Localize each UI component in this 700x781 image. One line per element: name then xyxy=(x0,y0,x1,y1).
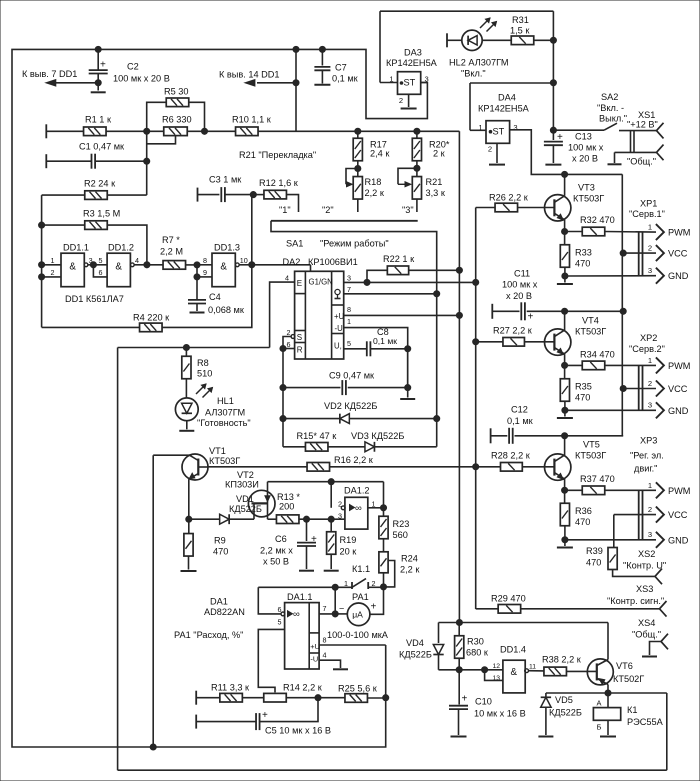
svg-text:R1 1 к: R1 1 к xyxy=(85,115,112,125)
svg-text:SA2: SA2 xyxy=(601,92,618,102)
svg-text:С13: С13 xyxy=(575,132,592,142)
svg-text:VT6: VT6 xyxy=(616,661,633,671)
svg-text:1: 1 xyxy=(344,579,348,588)
svg-text:6: 6 xyxy=(99,268,103,277)
svg-text:R: R xyxy=(297,346,303,355)
svg-text:R21 "Перекладка": R21 "Перекладка" xyxy=(239,150,316,160)
svg-text:КТ503Г: КТ503Г xyxy=(575,327,606,337)
svg-text:3: 3 xyxy=(347,273,351,282)
svg-text:"Контр. U": "Контр. U" xyxy=(623,561,666,571)
svg-text:470: 470 xyxy=(586,558,601,568)
svg-text:VT4: VT4 xyxy=(582,316,599,326)
svg-text:C2: C2 xyxy=(127,62,139,72)
svg-text:+U: +U xyxy=(310,642,320,651)
svg-text:2: 2 xyxy=(648,379,652,388)
svg-text:"Серв.2": "Серв.2" xyxy=(629,344,665,354)
svg-text:2,2 к: 2,2 к xyxy=(365,188,385,198)
svg-text:1: 1 xyxy=(478,123,482,132)
svg-text:100 мк x: 100 мк x xyxy=(502,280,538,290)
svg-text:ST: ST xyxy=(404,78,416,88)
svg-text:КТ503Г: КТ503Г xyxy=(575,451,606,461)
svg-text:Выкл.": Выкл." xyxy=(599,114,627,124)
svg-text:2,2 мк x: 2,2 мк x xyxy=(260,546,293,556)
svg-text:DD1 К561ЛА7: DD1 К561ЛА7 xyxy=(65,294,124,304)
svg-text:GND: GND xyxy=(668,406,689,416)
svg-text:КТ502Г: КТ502Г xyxy=(613,674,644,684)
svg-text:DA1.1: DA1.1 xyxy=(287,592,313,602)
svg-text:2: 2 xyxy=(648,244,652,253)
svg-text:2: 2 xyxy=(372,579,376,588)
svg-text:VCC: VCC xyxy=(668,249,688,259)
svg-text:КР142ЕН5А: КР142ЕН5А xyxy=(478,104,530,114)
svg-text:К выв. 14 DD1: К выв. 14 DD1 xyxy=(219,70,280,80)
svg-text:"Рег. эл.: "Рег. эл. xyxy=(630,451,664,461)
svg-text:PWM: PWM xyxy=(668,228,690,238)
svg-text:4: 4 xyxy=(135,256,139,265)
svg-text:0,1 мк: 0,1 мк xyxy=(332,74,359,84)
svg-text:AD822AN: AD822AN xyxy=(204,607,245,617)
svg-text:3: 3 xyxy=(648,266,652,275)
svg-text:+: + xyxy=(100,60,106,71)
svg-text:DA1.2: DA1.2 xyxy=(344,486,370,496)
svg-text:VD5: VD5 xyxy=(555,695,573,705)
svg-text:PWM: PWM xyxy=(668,486,690,496)
svg-text:VT3: VT3 xyxy=(578,183,595,193)
svg-text:VD2 КД522Б: VD2 КД522Б xyxy=(324,401,377,411)
svg-text:КТ503Г: КТ503Г xyxy=(573,194,604,204)
svg-text:XS1: XS1 xyxy=(638,110,655,120)
svg-text:К выв. 7 DD1: К выв. 7 DD1 xyxy=(22,69,77,79)
svg-text:560: 560 xyxy=(393,530,408,540)
svg-text:2: 2 xyxy=(51,268,55,277)
svg-text:R6 330: R6 330 xyxy=(162,115,192,125)
svg-text:R33: R33 xyxy=(575,248,592,258)
svg-text:А: А xyxy=(597,698,602,707)
svg-text:С11: С11 xyxy=(514,268,530,278)
svg-text:РА1: РА1 xyxy=(352,592,369,602)
svg-text:3,3 к: 3,3 к xyxy=(426,188,446,198)
svg-text:+: + xyxy=(462,694,468,705)
svg-text:DD1.2: DD1.2 xyxy=(108,242,134,252)
svg-text:R35: R35 xyxy=(575,382,592,392)
svg-text:"Общ.": "Общ." xyxy=(632,629,661,639)
svg-text:R36: R36 xyxy=(575,506,592,516)
svg-text:R21: R21 xyxy=(426,177,443,187)
svg-text:VT5: VT5 xyxy=(583,440,600,450)
svg-text:&: & xyxy=(69,262,76,273)
svg-text:DA4: DA4 xyxy=(498,93,516,103)
svg-text:100-0-100 мкА: 100-0-100 мкА xyxy=(327,630,389,640)
svg-text:R11 3,3 к: R11 3,3 к xyxy=(211,683,250,693)
svg-text:VT2: VT2 xyxy=(237,470,254,480)
svg-text:C1 0,47 мк: C1 0,47 мк xyxy=(79,142,125,152)
svg-text:"Режим работы": "Режим работы" xyxy=(320,239,389,249)
svg-text:VCC: VCC xyxy=(668,384,688,394)
svg-text:12: 12 xyxy=(493,663,501,670)
svg-text:1: 1 xyxy=(648,223,652,232)
svg-text:VD3 КД522Б: VD3 КД522Б xyxy=(351,431,404,441)
svg-text:"+12 В": "+12 В" xyxy=(627,120,658,130)
svg-text:SA1: SA1 xyxy=(286,239,303,249)
svg-text:КР142ЕН5А: КР142ЕН5А xyxy=(386,58,438,68)
svg-text:&: & xyxy=(511,667,518,678)
svg-text:R29 470: R29 470 xyxy=(491,594,526,604)
svg-text:R26 2,2 к: R26 2,2 к xyxy=(489,193,529,203)
svg-text:2: 2 xyxy=(648,505,652,514)
svg-text:R22 1 к: R22 1 к xyxy=(383,254,415,264)
svg-text:0,1 мк: 0,1 мк xyxy=(373,336,397,346)
svg-text:100 мк x 20 В: 100 мк x 20 В xyxy=(113,74,170,84)
svg-text:∞: ∞ xyxy=(355,503,362,514)
svg-text:G1/GN: G1/GN xyxy=(309,278,333,287)
svg-text:HL2 АЛ307ГМ: HL2 АЛ307ГМ xyxy=(449,58,509,68)
svg-text:&: & xyxy=(220,262,227,273)
svg-text:R8: R8 xyxy=(197,358,209,368)
svg-text:-U: -U xyxy=(310,655,318,664)
svg-text:XP3: XP3 xyxy=(640,436,657,446)
svg-text:R15* 47 к: R15* 47 к xyxy=(297,431,338,441)
svg-text:КД522Б: КД522Б xyxy=(549,708,582,718)
svg-text:DD1.4: DD1.4 xyxy=(500,645,526,655)
svg-text:XS2: XS2 xyxy=(638,549,655,559)
svg-text:DA3: DA3 xyxy=(404,48,422,58)
svg-text:"Готовность": "Готовность" xyxy=(197,418,251,428)
svg-text:R12 1,6 к: R12 1,6 к xyxy=(259,178,299,188)
svg-text:x 20 В: x 20 В xyxy=(506,291,532,301)
svg-text:КД522Б: КД522Б xyxy=(399,650,432,660)
svg-text:&: & xyxy=(115,262,122,273)
svg-text:"Вкл.": "Вкл." xyxy=(461,69,486,79)
svg-text:VT1: VT1 xyxy=(209,446,226,456)
svg-text:2: 2 xyxy=(488,145,492,154)
svg-text:7: 7 xyxy=(323,604,327,613)
svg-text:К1.1: К1.1 xyxy=(352,564,370,574)
svg-text:10: 10 xyxy=(240,256,248,265)
svg-text:8: 8 xyxy=(323,635,327,644)
svg-text:E: E xyxy=(297,279,302,288)
svg-text:C3 1 мк: C3 1 мк xyxy=(209,175,242,185)
svg-text:GND: GND xyxy=(668,271,689,281)
svg-text:2,2 к: 2,2 к xyxy=(400,565,420,575)
svg-text:двиг.": двиг." xyxy=(634,464,657,474)
svg-text:680 к: 680 к xyxy=(466,648,489,658)
svg-text:C7: C7 xyxy=(335,63,347,73)
svg-text:"1": "1" xyxy=(279,205,291,215)
svg-text:КР1006ВИ1: КР1006ВИ1 xyxy=(308,257,358,267)
svg-text:R10 1,1 к: R10 1,1 к xyxy=(232,115,272,125)
svg-text:+: + xyxy=(262,710,268,721)
svg-text:R3 1,5 М: R3 1,5 М xyxy=(83,209,120,219)
svg-text:1: 1 xyxy=(347,317,351,326)
svg-text:R28 2,2 к: R28 2,2 к xyxy=(491,451,531,461)
svg-text:R32 470: R32 470 xyxy=(580,215,615,225)
svg-text:R16 2,2 к: R16 2,2 к xyxy=(334,455,374,465)
svg-text:6: 6 xyxy=(287,340,291,349)
svg-text:2: 2 xyxy=(287,328,291,337)
svg-text:R9: R9 xyxy=(214,536,226,546)
svg-text:DA2: DA2 xyxy=(283,257,301,267)
svg-text:HL1: HL1 xyxy=(217,396,234,406)
svg-text:R38 2,2 к: R38 2,2 к xyxy=(542,655,582,665)
svg-text:+: + xyxy=(557,132,563,143)
svg-text:x 20 В: x 20 В xyxy=(572,154,598,164)
svg-text:4: 4 xyxy=(323,651,327,660)
svg-text:x 50 В: x 50 В xyxy=(263,557,289,567)
svg-text:"Вкл. -: "Вкл. - xyxy=(597,103,624,113)
svg-text:R27 2,2 к: R27 2,2 к xyxy=(493,326,533,336)
svg-text:R24: R24 xyxy=(401,554,418,564)
svg-text:1,5 к: 1,5 к xyxy=(510,26,530,36)
svg-text:R25 5,6 к: R25 5,6 к xyxy=(338,684,378,694)
svg-text:470: 470 xyxy=(213,547,228,557)
svg-text:R4 220 к: R4 220 к xyxy=(133,313,170,323)
svg-text:К1: К1 xyxy=(627,705,637,715)
svg-text:2 к: 2 к xyxy=(433,149,446,159)
svg-text:"Серв.1": "Серв.1" xyxy=(629,209,665,219)
svg-text:5: 5 xyxy=(347,339,351,348)
svg-text:20 к: 20 к xyxy=(340,547,358,557)
svg-text:R2 24 к: R2 24 к xyxy=(84,179,116,189)
svg-text:U,: U, xyxy=(334,342,342,351)
svg-text:КП303И: КП303И xyxy=(225,480,259,490)
svg-text:C12: C12 xyxy=(511,405,528,415)
svg-text:1: 1 xyxy=(648,356,652,365)
svg-text:XP2: XP2 xyxy=(640,333,657,343)
svg-text:R34 470: R34 470 xyxy=(580,349,615,359)
svg-text:2: 2 xyxy=(399,96,403,105)
svg-text:DA1: DA1 xyxy=(210,597,228,607)
svg-text:∞: ∞ xyxy=(293,609,300,620)
svg-text:VCC: VCC xyxy=(668,510,688,520)
svg-text:DD1.1: DD1.1 xyxy=(63,242,89,252)
svg-text:510: 510 xyxy=(197,369,212,379)
svg-text:R5 30: R5 30 xyxy=(164,87,189,97)
svg-text:РЭС55А: РЭС55А xyxy=(627,717,664,727)
svg-text:0,068 мк: 0,068 мк xyxy=(208,305,245,315)
svg-text:R19: R19 xyxy=(340,535,357,545)
svg-text:3: 3 xyxy=(338,512,342,521)
svg-text:470: 470 xyxy=(575,393,590,403)
svg-text:"3": "3" xyxy=(402,205,414,215)
svg-text:С6: С6 xyxy=(275,534,287,544)
svg-text:5: 5 xyxy=(99,256,103,265)
svg-text:R31: R31 xyxy=(512,15,529,25)
svg-text:R39: R39 xyxy=(586,546,603,556)
svg-text:3: 3 xyxy=(648,401,652,410)
svg-text:11: 11 xyxy=(529,663,536,670)
svg-text:R37 470: R37 470 xyxy=(580,474,615,484)
svg-text:1: 1 xyxy=(648,481,652,490)
svg-text:9: 9 xyxy=(203,268,207,277)
svg-text:3: 3 xyxy=(648,530,652,539)
svg-text:S: S xyxy=(297,333,302,342)
svg-text:C9 0,47 мк: C9 0,47 мк xyxy=(329,371,375,381)
svg-text:R13 *: R13 * xyxy=(277,492,300,502)
svg-text:C4: C4 xyxy=(209,292,221,302)
svg-text:−: − xyxy=(339,604,344,614)
svg-text:XP1: XP1 xyxy=(640,199,657,209)
svg-text:1: 1 xyxy=(389,75,393,84)
svg-text:+: + xyxy=(528,312,534,323)
svg-text:"Контр. сигн.": "Контр. сигн." xyxy=(607,596,664,606)
svg-text:С10: С10 xyxy=(475,697,492,707)
svg-text:200: 200 xyxy=(279,502,294,512)
svg-text:"2": "2" xyxy=(322,205,334,215)
svg-text:μА: μА xyxy=(352,610,363,620)
svg-text:R18: R18 xyxy=(365,177,382,187)
svg-text:+: + xyxy=(371,602,377,613)
svg-text:8: 8 xyxy=(347,305,351,314)
svg-text:470: 470 xyxy=(575,259,590,269)
svg-text:100 мк x: 100 мк x xyxy=(568,143,604,153)
svg-text:+U: +U xyxy=(334,312,345,321)
svg-text:10 мк x 16 В: 10 мк x 16 В xyxy=(474,709,526,719)
svg-text:470: 470 xyxy=(575,517,590,527)
svg-text:КТ503Г: КТ503Г xyxy=(209,456,240,466)
svg-text:2,4 к: 2,4 к xyxy=(370,149,390,159)
svg-text:3: 3 xyxy=(513,123,517,132)
svg-text:R30: R30 xyxy=(467,637,484,647)
svg-text:4: 4 xyxy=(285,274,289,283)
svg-text:DD1.3: DD1.3 xyxy=(214,242,240,252)
svg-text:КД522Б: КД522Б xyxy=(229,504,262,514)
svg-text:R7 *: R7 * xyxy=(162,235,180,245)
svg-text:"Общ.": "Общ." xyxy=(627,157,656,167)
svg-text:8: 8 xyxy=(203,256,207,265)
svg-text:0,1 мк: 0,1 мк xyxy=(507,416,534,426)
svg-text:2,2 М: 2,2 М xyxy=(160,247,183,257)
svg-text:XS4: XS4 xyxy=(638,618,655,628)
svg-text:VD4: VD4 xyxy=(406,638,424,648)
svg-text:XS3: XS3 xyxy=(636,584,653,594)
svg-text:Б: Б xyxy=(597,723,602,732)
svg-text:+: + xyxy=(311,534,317,545)
svg-text:GND: GND xyxy=(668,535,689,545)
svg-text:5: 5 xyxy=(278,618,282,627)
svg-text:C5 10 мк x 16 В: C5 10 мк x 16 В xyxy=(265,726,331,736)
svg-text:ST: ST xyxy=(493,126,505,136)
svg-text:РА1 "Расход, %": РА1 "Расход, %" xyxy=(174,630,243,640)
svg-text:7: 7 xyxy=(347,285,351,294)
svg-text:R23: R23 xyxy=(393,519,410,529)
svg-text:-U: -U xyxy=(335,324,344,333)
svg-text:PWM: PWM xyxy=(668,361,690,371)
svg-text:R14 2,2 к: R14 2,2 к xyxy=(283,683,323,693)
svg-text:1: 1 xyxy=(51,256,55,265)
svg-text:АЛ307ГМ: АЛ307ГМ xyxy=(205,408,245,418)
